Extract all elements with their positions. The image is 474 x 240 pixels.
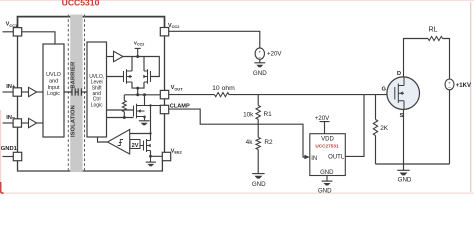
svg-text:D: D xyxy=(397,71,401,77)
wire 2K bottom to rail xyxy=(375,136,377,165)
wire VOUT to Rg xyxy=(169,94,215,96)
svg-text:GND: GND xyxy=(320,170,334,176)
svg-text:+20V: +20V xyxy=(315,115,330,122)
wire VCC2 to 20V source xyxy=(169,31,260,48)
wire top rail xyxy=(123,57,159,77)
wire left FET source up xyxy=(131,57,133,72)
svg-text:UVLO: UVLO xyxy=(46,72,61,78)
wire IN+ buffer to box xyxy=(37,91,43,93)
node VCC2 rail dot xyxy=(136,55,139,58)
wire Q4 gate lead xyxy=(140,145,144,147)
wire Q3 source down xyxy=(144,117,146,121)
svg-text:IN: IN xyxy=(311,156,317,162)
wire bottom rail xyxy=(376,163,450,165)
wire right FET source up xyxy=(143,57,145,72)
wire R2 bottom xyxy=(257,150,259,174)
svg-text:VEE2: VEE2 xyxy=(171,148,183,154)
terminal VEE2 xyxy=(162,152,170,160)
buffer IN+ xyxy=(29,87,37,96)
svg-text:RL: RL xyxy=(429,26,438,33)
block UVLO and Input Logic xyxy=(43,44,64,137)
wire rail gnd stub xyxy=(403,164,405,170)
svg-text:GND: GND xyxy=(398,176,412,183)
resistor Rg 10 ohm xyxy=(215,93,230,97)
svg-text:2K: 2K xyxy=(380,125,389,132)
comparator U3 (clamp, points left) xyxy=(108,130,130,155)
IC top edge wire xyxy=(18,17,165,28)
svg-text:4k: 4k xyxy=(246,139,254,146)
ground clamp xyxy=(146,161,156,163)
wire CLAMP to divider junction xyxy=(169,109,259,124)
terminal VOUT xyxy=(160,90,168,98)
wire RL to HV source xyxy=(443,39,450,80)
svg-text:10 ohm: 10 ohm xyxy=(212,85,235,92)
node clamp tap xyxy=(149,104,151,106)
wire IN- to buffer xyxy=(22,122,29,124)
svg-text:+1KV: +1KV xyxy=(456,83,471,89)
svg-text:R2: R2 xyxy=(264,139,273,146)
wire gate Q1 from ctrl box xyxy=(107,76,124,78)
source V20 (+20V) xyxy=(255,48,264,59)
svg-text:GND1: GND1 xyxy=(1,146,18,152)
wire Q3 drain to OUT xyxy=(144,95,146,106)
wire 20V source to gnd xyxy=(259,59,261,62)
svg-text:OUTL: OUTL xyxy=(328,154,345,160)
node output stage junction xyxy=(136,87,139,90)
resistor RL xyxy=(428,36,443,40)
wire HV source down xyxy=(449,90,451,164)
transistor Q4 (clamp N) xyxy=(144,139,151,152)
node comparator tap xyxy=(149,132,151,134)
svg-text:GND: GND xyxy=(253,70,267,77)
wire 2K top xyxy=(375,95,377,120)
block UVLO Level Shift and Ctrl Logic xyxy=(87,42,107,137)
wire gate pull-down upper xyxy=(107,109,134,111)
node resistor bottom xyxy=(123,116,126,119)
svg-text:CLAMP: CLAMP xyxy=(170,103,190,109)
wire R1 bottom to junction xyxy=(257,119,259,137)
svg-text:–: – xyxy=(259,54,262,59)
red figure border (cropped) xyxy=(0,0,474,2)
svg-text:UCC27531: UCC27531 xyxy=(315,143,339,148)
wire IN- buffer to box xyxy=(37,122,43,124)
svg-text:GND: GND xyxy=(318,188,332,195)
source V1KV xyxy=(445,79,454,90)
GND1 stub wire xyxy=(3,156,14,158)
wire FET source down xyxy=(403,109,405,164)
wire across barrier xyxy=(64,91,87,93)
IN- stub wire xyxy=(3,122,14,124)
svg-text:VCC2: VCC2 xyxy=(168,23,180,29)
terminal VCC1 xyxy=(13,28,21,36)
wire CLAMP pin internal xyxy=(145,105,161,107)
supply tick driver xyxy=(320,122,330,134)
isolation capacitor C1 xyxy=(72,88,75,95)
wire VCC1 to UVLO box xyxy=(22,32,55,44)
wire Q1 drain down to node xyxy=(132,82,144,88)
svg-text:IN–: IN– xyxy=(6,115,16,121)
wire driver gnd xyxy=(326,176,328,181)
reference 2V box xyxy=(130,140,140,149)
wire OUT rail xyxy=(124,94,160,96)
VCC2 internal supply tick xyxy=(135,48,141,56)
wire IN+ to buffer xyxy=(22,91,29,93)
wire center to OUT rail xyxy=(137,88,139,95)
svg-text:and: and xyxy=(49,79,58,85)
node OUT dot 2 xyxy=(143,93,146,96)
comparator hysteresis glyph xyxy=(118,140,124,146)
wire comparator input xyxy=(130,133,151,135)
transistor Q3 (pull-down N) xyxy=(134,104,145,118)
ground main xyxy=(397,169,409,171)
IC bottom edge wire xyxy=(18,161,163,171)
isolation capacitor C2 xyxy=(78,88,81,95)
wire comparator output to ctrl box xyxy=(98,137,108,142)
IC left edge wire xyxy=(17,36,19,152)
ground R2 xyxy=(252,173,264,175)
node OUT dot 1 xyxy=(136,93,139,96)
wire Q4 source to VEE2 xyxy=(151,151,163,157)
resistor 2K xyxy=(373,120,377,136)
svg-text:G: G xyxy=(381,86,386,92)
barrier dashed line left xyxy=(67,15,69,173)
wire clamp source gnd stub xyxy=(150,156,152,162)
terminal VCC2 xyxy=(160,28,168,36)
svg-text:VDD: VDD xyxy=(321,136,334,142)
wire gate line xyxy=(229,94,395,96)
block UCC27531 xyxy=(310,134,346,176)
node Q3 source xyxy=(143,116,146,119)
isolation barrier strip xyxy=(70,15,82,173)
svg-text:–: – xyxy=(448,85,451,90)
transistor Q2 (pull-up N) xyxy=(144,69,151,83)
svg-text:10k: 10k xyxy=(243,111,254,118)
transistor Q1 (pull-up P) xyxy=(124,69,133,83)
IN+ stub wire xyxy=(3,91,14,93)
svg-text:Logic: Logic xyxy=(91,102,103,108)
resistor internal Roff xyxy=(123,95,125,101)
svg-text:Input: Input xyxy=(48,85,60,91)
svg-text:IN+: IN+ xyxy=(6,84,16,90)
wire gate pull-down lower xyxy=(107,117,134,119)
buffer U2 (gate driver) xyxy=(114,51,124,62)
wire R1 top xyxy=(257,95,259,106)
wire drain up xyxy=(404,39,429,77)
terminal CLAMP xyxy=(160,105,168,113)
svg-text:BARRIER: BARRIER xyxy=(70,62,76,89)
ground internal Q3 xyxy=(139,120,150,122)
resistor R2 4k xyxy=(256,137,260,149)
svg-text:VOUT: VOUT xyxy=(171,85,183,91)
arrow into IN pin xyxy=(304,155,309,160)
ground driver xyxy=(322,180,333,182)
svg-text:Logic: Logic xyxy=(47,91,60,97)
terminal GND1 xyxy=(13,152,21,160)
terminal IN+ xyxy=(13,88,21,96)
svg-text:ISOLATION: ISOLATION xyxy=(70,105,76,137)
ground 20V xyxy=(254,62,265,64)
VCC1 stub wire xyxy=(3,31,14,33)
svg-text:GND: GND xyxy=(252,181,266,188)
svg-text:+20V: +20V xyxy=(267,50,282,57)
resistor R1 10k xyxy=(256,105,260,119)
svg-text:2V: 2V xyxy=(132,143,139,149)
svg-text:R1: R1 xyxy=(264,111,273,118)
svg-text:UCC5310: UCC5310 xyxy=(62,0,100,8)
buffer IN- xyxy=(29,118,37,127)
wire OUTL to gate line xyxy=(345,95,364,157)
svg-text:VCC1: VCC1 xyxy=(6,22,18,28)
node clamp source xyxy=(149,155,152,158)
terminal IN- xyxy=(13,119,21,127)
transistor Q5 power MOSFET xyxy=(387,77,420,110)
barrier dashed line right xyxy=(84,15,86,173)
IC right edge wire xyxy=(164,36,166,152)
wire Q4 drain connect xyxy=(150,106,152,141)
wire ctrl box to top buffer xyxy=(107,56,114,58)
wire junction to UCC27531 IN xyxy=(258,124,305,157)
